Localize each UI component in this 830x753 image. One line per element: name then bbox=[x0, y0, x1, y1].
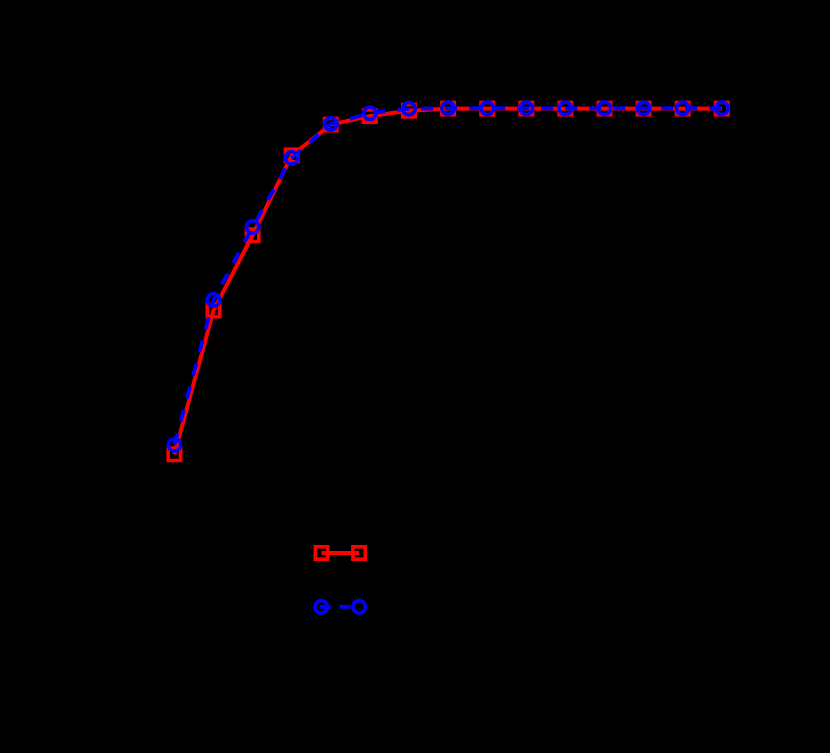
legend blue circle marker right bbox=[353, 601, 365, 613]
legend blue dashed line sample bbox=[320, 605, 360, 609]
legend red solid line sample bbox=[322, 551, 360, 555]
blue dashed series line bbox=[174, 108, 721, 445]
blue circle markers bbox=[168, 102, 728, 451]
legend red square marker left bbox=[315, 547, 327, 559]
red solid series line bbox=[174, 109, 721, 455]
red square markers bbox=[168, 102, 728, 460]
legend blue circle marker left bbox=[315, 601, 327, 613]
legend red square marker right bbox=[353, 547, 365, 559]
